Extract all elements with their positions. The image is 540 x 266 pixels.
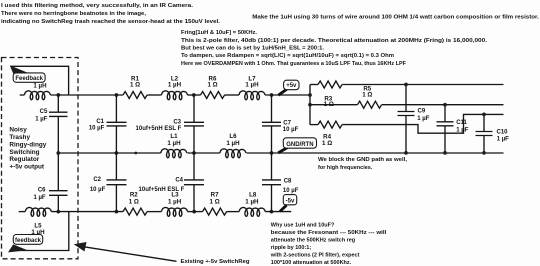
capacitor C4 <box>193 153 195 180</box>
svg-text:1 µF: 1 µF <box>497 137 509 143</box>
svg-text:10 µF: 10 µF <box>283 127 299 133</box>
svg-text:1 µF: 1 µF <box>456 127 468 133</box>
svg-text:1 µH: 1 µH <box>33 82 47 89</box>
svg-text:This is 2-pole filter, 40db (1: This is 2-pole filter, 40db (100:1) per … <box>181 38 488 44</box>
wire: branch 1 start <box>310 84 318 86</box>
svg-text:+5v: +5v <box>286 83 297 89</box>
svg-text:for high frequencies.: for high frequencies. <box>318 165 373 171</box>
inductor L3 <box>162 207 188 216</box>
resistor R2 <box>123 208 147 215</box>
inductor L5 <box>25 207 51 216</box>
svg-text:1 Ω: 1 Ω <box>210 198 220 205</box>
svg-text:We block the GND path as well,: We block the GND path as well, <box>318 157 408 163</box>
pointer arrow to enclosure <box>84 247 177 261</box>
wire: L8 to rail end <box>265 211 291 213</box>
svg-text:10 µF: 10 µF <box>283 188 299 194</box>
node: C11 top <box>443 103 447 107</box>
switching regulator enclosure (dashed) <box>2 58 79 259</box>
svg-text:But best we can do is set by 1: But best we can do is set by 1uH/5nH_ESL… <box>181 46 325 52</box>
svg-text:C3: C3 <box>173 119 181 125</box>
svg-text:C8: C8 <box>284 179 292 185</box>
wire: R6 to L7 <box>225 94 240 96</box>
GND/RTN net label balloon <box>278 148 287 153</box>
svg-text:because the Fresonant --- 50KH: because the Fresonant --- 50KHz --- will <box>271 230 387 236</box>
node: splitter mid branch <box>308 103 312 107</box>
svg-text:To dampen, use Rdampen = sqrt(: To dampen, use Rdampen = sqrt(L/C) = sqr… <box>181 53 394 59</box>
wire: top rail from coil to R1 <box>50 94 123 96</box>
svg-text:L8: L8 <box>249 191 257 198</box>
svg-text:1 µH: 1 µH <box>245 198 259 205</box>
wire: L3 to R7 <box>188 211 203 213</box>
svg-text:with 2-sections (2 PI filter),: with 2-sections (2 PI filter), expect <box>270 252 360 258</box>
node: C1/C2 mid junction <box>115 151 119 155</box>
inductor L2 <box>162 91 188 100</box>
svg-text:Fring[1uH & 10uF] = 50KHz.: Fring[1uH & 10uF] = 50KHz. <box>181 30 257 36</box>
svg-text:R7: R7 <box>211 191 219 198</box>
inductor L1 <box>161 149 187 158</box>
svg-text:There were no herringbone beat: There were no herringbone beatnotes in t… <box>1 11 147 17</box>
capacitor C10 <box>483 114 485 131</box>
svg-text:Make the 1uH using 30 turns of: Make the 1uH using 30 turns of wire arou… <box>252 15 539 21</box>
svg-text:1 µH: 1 µH <box>226 140 240 147</box>
capacitor C7 <box>271 95 273 122</box>
svg-text:C11: C11 <box>456 120 467 126</box>
svg-text:indicating no SwitchReg trash: indicating no SwitchReg trash reached th… <box>1 19 221 25</box>
svg-text:1 µH: 1 µH <box>168 198 182 205</box>
inductor 1 uH (in-box top) <box>24 91 50 100</box>
node: small junction <box>134 152 137 155</box>
node: top rail / C5 junction <box>56 93 60 97</box>
wire: -5v rail left stub <box>19 211 26 213</box>
svg-text:C9: C9 <box>418 109 426 115</box>
svg-text:attenuate the 500KHz switch re: attenuate the 500KHz switch reg <box>271 237 355 243</box>
capacitor C6 <box>57 153 59 191</box>
svg-text:Why use 1uH and 10uF?: Why use 1uH and 10uF? <box>271 222 335 228</box>
resistor R3 <box>318 81 342 88</box>
svg-text:+-5v output: +-5v output <box>9 164 44 171</box>
+5v net label balloon <box>278 89 286 95</box>
wire: top feedback loop <box>10 66 68 95</box>
node: C2 bottom junction <box>115 210 119 214</box>
svg-text:1 Ω: 1 Ω <box>322 140 332 147</box>
capacitor C11 <box>444 105 446 122</box>
svg-text:1 Ω: 1 Ω <box>207 82 217 89</box>
wire: bottom rail coil to R2 <box>51 211 123 213</box>
wire: L2 to R6 <box>188 94 201 96</box>
inductor L8 <box>239 207 265 216</box>
svg-text:C7: C7 <box>283 120 291 126</box>
svg-text:C2: C2 <box>93 177 101 183</box>
-5v net label balloon <box>280 205 287 211</box>
svg-text:C1: C1 <box>96 119 104 125</box>
svg-text:1 Ω: 1 Ω <box>129 198 139 205</box>
inductor L7 <box>239 91 265 100</box>
node: C9 top <box>404 83 408 87</box>
svg-text:Switching: Switching <box>9 149 39 156</box>
node: C7/C8 mid junction <box>270 151 274 155</box>
svg-text:I used this filtering method,: I used this filtering method, very succe… <box>1 3 194 9</box>
wire: bottom feedback loop <box>15 212 69 251</box>
wire: splitter vertical <box>309 85 311 125</box>
node: C10 top <box>482 113 486 117</box>
wire: branch 1 to right edge <box>342 84 503 86</box>
svg-text:feedback: feedback <box>15 238 42 244</box>
wire: branch 2 start <box>310 104 358 106</box>
svg-text:ripple by 100:1;: ripple by 100:1; <box>271 245 312 251</box>
svg-text:C5: C5 <box>40 109 48 115</box>
svg-text:10uf+5nH ESL F: 10uf+5nH ESL F <box>136 126 182 132</box>
capacitor C5 <box>57 95 59 112</box>
wire: branch 3 start <box>310 124 318 126</box>
svg-text:L1: L1 <box>170 133 178 140</box>
svg-text:1 µH: 1 µH <box>167 140 181 147</box>
wire: R7 to L8 <box>227 211 240 213</box>
svg-text:-5v: -5v <box>286 199 295 205</box>
capacitor C9 <box>405 85 407 112</box>
svg-text:1 µF: 1 µF <box>33 195 45 201</box>
svg-text:C4: C4 <box>175 177 183 183</box>
node: C8 bottom junction <box>270 210 274 214</box>
resistor R4 <box>318 121 342 128</box>
svg-text:10uf+5nH ESL F: 10uf+5nH ESL F <box>139 187 185 193</box>
node: C3 top junction <box>192 93 196 97</box>
svg-text:Ringy-dingy: Ringy-dingy <box>9 141 46 148</box>
svg-text:1 µH: 1 µH <box>245 82 259 89</box>
svg-text:Feedback: Feedback <box>15 76 43 82</box>
node: +5v rail into splitter <box>308 93 312 97</box>
capacitor C1 <box>115 95 117 122</box>
capacitor C8 <box>271 153 273 180</box>
inductor L6 <box>220 149 246 158</box>
node: C4 bottom junction <box>192 210 196 214</box>
node: bottom rail / C6 junction <box>56 210 60 214</box>
resistor R5 <box>358 101 382 108</box>
wire: L7 to splitter <box>265 94 310 96</box>
svg-text:L6: L6 <box>229 133 237 140</box>
wire: R1 to L2 <box>147 94 161 96</box>
feedback callout balloon (bottom) <box>8 244 28 252</box>
wire: GND rail <box>58 152 503 154</box>
node: C3/C4 mid junction <box>192 151 196 155</box>
svg-text:1 µF: 1 µF <box>417 116 429 122</box>
svg-text:R2: R2 <box>130 191 138 198</box>
resistor R7 <box>203 208 227 215</box>
svg-text:Regulator: Regulator <box>9 156 39 163</box>
svg-text:100*100 attenuation at 500Khz.: 100*100 attenuation at 500Khz. <box>271 260 352 266</box>
node: C10 bottom <box>482 151 486 155</box>
node: C11 bottom <box>443 151 447 155</box>
svg-text:1 µF: 1 µF <box>35 117 47 123</box>
svg-text:1 µH: 1 µH <box>168 82 182 89</box>
node: C9 bottom <box>404 151 408 155</box>
wire: branch 3 stepped run <box>342 114 503 133</box>
svg-text:10 µF: 10 µF <box>90 187 106 193</box>
wire: +5v rail left stub <box>20 94 25 96</box>
svg-text:Trashy: Trashy <box>9 134 30 141</box>
node: C7 top junction <box>270 93 274 97</box>
wire: R2 to L3 <box>147 211 161 213</box>
svg-text:1 Ω: 1 Ω <box>362 91 372 98</box>
svg-text:Noisy: Noisy <box>9 127 27 134</box>
Feedback callout balloon (top) <box>10 65 29 73</box>
svg-text:Existing +-5v SwitchReg: Existing +-5v SwitchReg <box>181 259 250 265</box>
svg-text:C6: C6 <box>38 187 46 193</box>
wire: branch 2 to right edge <box>382 104 504 106</box>
svg-text:GND/RTN: GND/RTN <box>286 142 313 148</box>
capacitor C3 <box>193 95 195 122</box>
svg-text:10 µF: 10 µF <box>89 126 105 132</box>
capacitor C2 <box>115 153 117 180</box>
svg-text:C10: C10 <box>497 130 509 136</box>
resistor R1 <box>123 92 147 99</box>
node: C1 top junction <box>115 93 119 97</box>
node: C5/C6 midpoint <box>56 151 60 155</box>
resistor R6 <box>201 92 225 99</box>
svg-text:1 Ω: 1 Ω <box>130 82 140 89</box>
svg-text:Here we OVERDAMPEN with 1 Ohm.: Here we OVERDAMPEN with 1 Ohm. That guar… <box>181 61 407 67</box>
